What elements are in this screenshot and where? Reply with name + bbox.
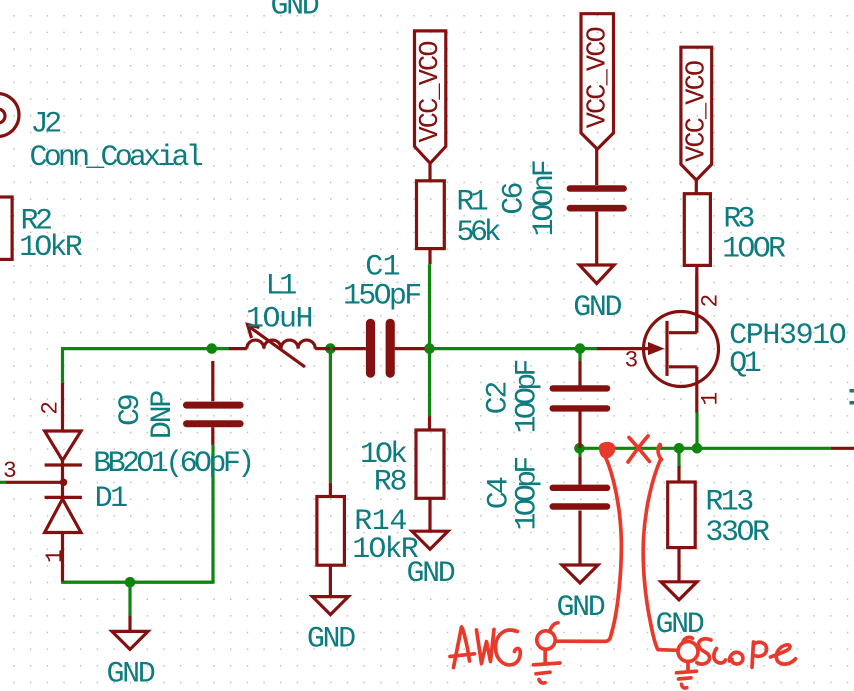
resistor R8: [416, 416, 444, 531]
capacitor C6: [567, 149, 627, 265]
resistor R2: [0, 197, 12, 259]
svg-text:1: 1: [42, 550, 68, 563]
junction bottom rail: [125, 577, 136, 588]
varactor D1: [6, 383, 82, 582]
annotation AWG lead: [556, 457, 622, 641]
svg-text:C9: C9: [114, 395, 148, 426]
capacitor C9: [183, 361, 244, 445]
wire D1 bottom to rail: [63, 581, 214, 584]
partial text right edge: [850, 389, 854, 405]
wire main horizontal left + D1 top drop: [63, 349, 230, 383]
svg-text:R1: R1: [456, 186, 487, 220]
junction main-L1: [207, 343, 218, 354]
junction D1 pin3 maroon: [60, 479, 68, 487]
ground bottom rail: [107, 615, 155, 691]
ground C4: [557, 565, 605, 625]
svg-text:1OOnF: 1OOnF: [528, 161, 562, 236]
annotation scope tap mark: [658, 445, 661, 460]
wire junction2 to R14: [329, 349, 332, 483]
wire junction4 to C2 stub: [578, 349, 581, 361]
annotation scope lead: [643, 460, 677, 651]
wire main horizontal middle: [425, 347, 597, 350]
svg-text:BB2O1(6OpF): BB2O1(6OpF): [93, 447, 251, 481]
svg-text:GND: GND: [407, 557, 455, 591]
connector J2: [0, 94, 19, 137]
svg-text:R3: R3: [723, 202, 754, 236]
capacitor C4: [550, 457, 611, 565]
inductor L1: [229, 325, 330, 368]
ground R8: [407, 531, 455, 591]
svg-text:DNP: DNP: [146, 391, 180, 439]
svg-text:D1: D1: [95, 482, 128, 516]
svg-text:C6: C6: [498, 182, 532, 214]
annotation AWG probe: [534, 623, 561, 683]
svg-text:R8: R8: [374, 466, 407, 500]
svg-text:1OuH: 1OuH: [246, 302, 312, 336]
annotation AWG text: [450, 627, 520, 668]
global label VCC_VCO 1: [415, 31, 447, 163]
capacitor C1: [332, 319, 425, 378]
wire VCC1 stub: [428, 163, 431, 181]
svg-text:GND: GND: [307, 623, 355, 657]
wire C9 bottom to bottom rail: [63, 445, 214, 582]
svg-text:Q1: Q1: [729, 347, 761, 381]
ground R13: [656, 582, 704, 642]
global label VCC_VCO 3: [681, 47, 713, 180]
junction R13: [674, 443, 685, 454]
svg-text:2: 2: [38, 402, 64, 415]
ground R14: [307, 597, 355, 657]
wire R1 to R8 vertical: [428, 264, 431, 416]
annotation scope probe: [677, 637, 699, 688]
svg-text:VCC_VCO: VCC_VCO: [682, 61, 712, 162]
svg-text:1OOR: 1OOR: [722, 232, 786, 266]
junction C1-R1-R8: [424, 343, 435, 354]
annotation red blob AWG tap: [599, 442, 616, 459]
resistor R14: [317, 483, 345, 597]
svg-text:2: 2: [698, 295, 724, 308]
wire D1 pin3 stub left edge: [0, 481, 6, 484]
svg-text:1: 1: [698, 393, 724, 406]
svg-text:56k: 56k: [456, 216, 500, 250]
svg-text:GND: GND: [107, 657, 155, 691]
resistor R1: [417, 181, 445, 264]
transistor Q1: [597, 275, 719, 413]
junction L1-C1: [325, 343, 336, 354]
junction C2-C4 lower: [574, 443, 585, 454]
svg-text:GND: GND: [656, 608, 704, 642]
svg-text:VCC_VCO: VCC_VCO: [416, 42, 446, 143]
wire right edge pin: [831, 447, 854, 450]
svg-text:GND: GND: [557, 591, 605, 625]
wire lower horizontal: [580, 447, 831, 450]
capacitor C2: [550, 361, 611, 448]
svg-text:GND: GND: [573, 291, 621, 325]
svg-text:Conn_Coaxial: Conn_Coaxial: [30, 141, 203, 175]
wire C4 top stub: [578, 448, 581, 457]
svg-text:J2: J2: [31, 108, 61, 142]
resistor R13: [668, 466, 696, 582]
svg-text:15OpF: 15OpF: [343, 280, 420, 314]
svg-text:3: 3: [3, 458, 16, 484]
annotation X mark: [628, 436, 650, 462]
global label VCC_VCO 2: [581, 14, 614, 149]
svg-text:VCC_VCO: VCC_VCO: [583, 27, 613, 128]
svg-text:1OOpF: 1OOpF: [510, 458, 544, 531]
junction C2-gate: [575, 343, 586, 354]
wire rail GND stub: [128, 582, 131, 615]
wire Q1 source to lower wire: [695, 413, 698, 449]
resistor R3: [684, 180, 710, 333]
wire R13 top stub: [677, 448, 680, 466]
svg-text:R13: R13: [705, 485, 753, 519]
svg-text:GND: GND: [271, 0, 319, 24]
svg-text:3: 3: [625, 348, 638, 374]
junction Q1 source: [692, 443, 703, 454]
ground C6: [573, 265, 621, 325]
svg-text:L1: L1: [266, 270, 297, 304]
annotation Scope text: [697, 639, 796, 667]
svg-text:1OOpF: 1OOpF: [510, 361, 544, 434]
svg-text:33OR: 33OR: [705, 516, 770, 550]
svg-text:1OkR: 1OkR: [19, 231, 83, 265]
